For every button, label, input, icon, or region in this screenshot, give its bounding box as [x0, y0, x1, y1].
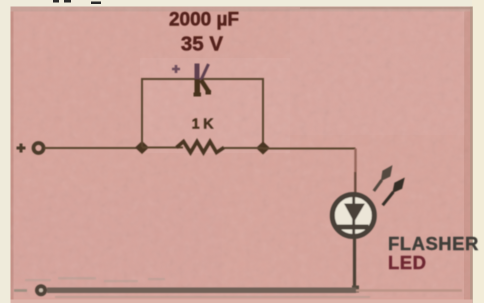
faint grey line under bus [55, 296, 370, 298]
cropped text fragments at top [53, 0, 59, 3]
wire corner down to LED [354, 149, 356, 173]
wire stem through LED [352, 197, 355, 236]
svg-text:LED: LED [388, 252, 427, 273]
wire loop top [141, 78, 264, 80]
wire bottom bus [47, 288, 356, 294]
node right junction [256, 142, 270, 155]
LED light arrow 1 [374, 165, 393, 191]
capacitor C1 2000uF plus sign [172, 65, 180, 73]
wire input to left junction [44, 147, 140, 149]
wire resistor to right junction [224, 147, 263, 149]
wire loop right vertical [262, 79, 264, 148]
wire bottom corner junction [352, 286, 359, 293]
wire loop left vertical [141, 79, 143, 147]
node + input terminal [17, 143, 44, 153]
subtle scan mottling [140, 58, 290, 153]
svg-text:35 V: 35 V [181, 33, 223, 56]
resistor R1 1K zigzag [177, 142, 225, 153]
smudge marks above bus [25, 277, 165, 282]
node - bottom terminal [14, 289, 27, 292]
LED D1 circle [332, 195, 374, 237]
LED D1 diode triangle [344, 204, 365, 223]
capacitor C1 plates [194, 64, 212, 97]
LED D1 cathode bar [337, 225, 369, 230]
wire right junction to corner [263, 148, 356, 150]
wire LED to bottom bus [353, 238, 356, 289]
svg-text:1 K: 1 K [192, 117, 214, 133]
LED light arrow 2 [383, 178, 405, 206]
wire bottom bus faint right extension [356, 289, 462, 292]
node left junction [135, 141, 149, 154]
svg-text:2000 µF: 2000 µF [169, 10, 239, 31]
wire junction to resistor [142, 147, 183, 149]
svg-text:FLASHER: FLASHER [388, 233, 479, 254]
